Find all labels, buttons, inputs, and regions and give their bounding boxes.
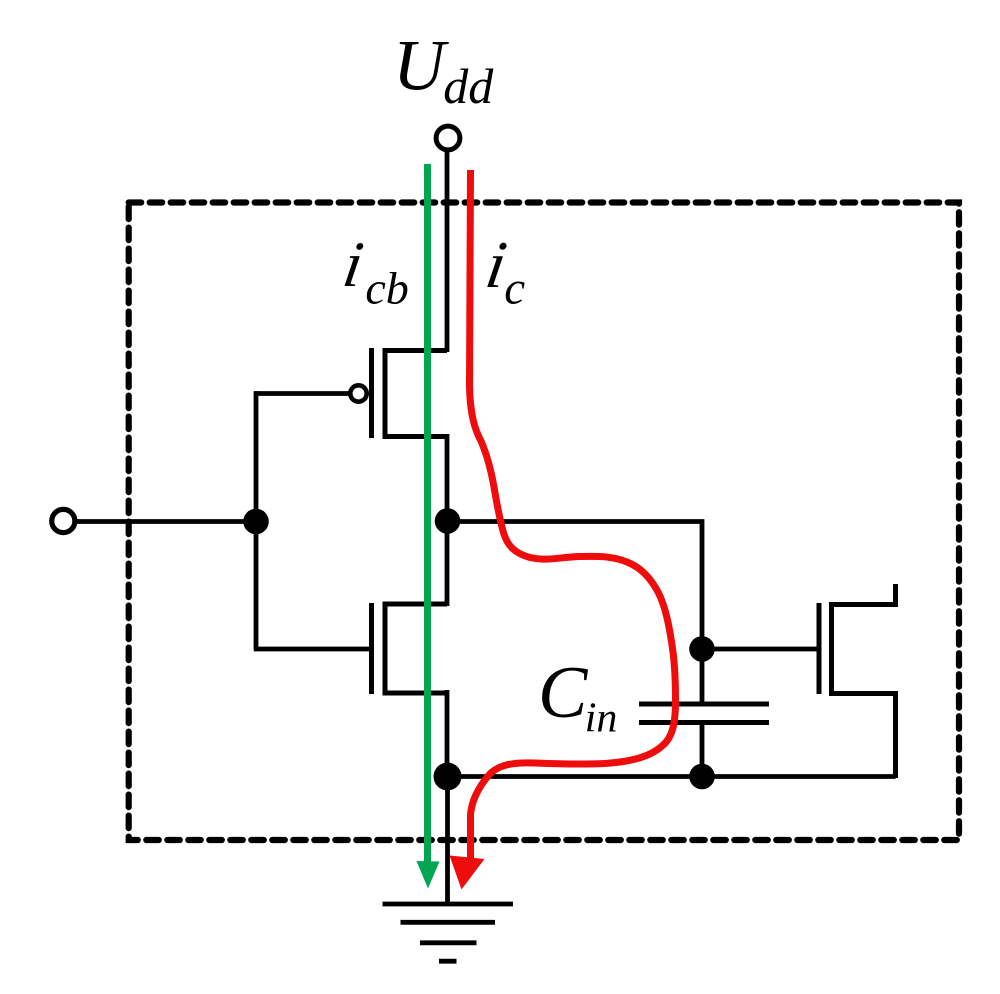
svg-text:in: in — [585, 696, 618, 742]
terminal Udd — [436, 126, 460, 150]
label i_c — [481, 227, 511, 302]
wire cap bottom — [700, 723, 705, 780]
current arrow i_c red — [450, 170, 676, 890]
node load gate — [689, 636, 715, 662]
wire ground rail — [447, 774, 896, 779]
terminal input — [52, 509, 75, 532]
node ground rail — [434, 763, 462, 791]
wire load gate lead — [702, 647, 819, 652]
node output — [435, 508, 461, 534]
wire PMOS drain to output node — [445, 434, 450, 524]
wire NMOS gate lead — [254, 647, 372, 652]
wire PMOS gate lead — [254, 391, 351, 396]
wire Udd supply — [445, 150, 450, 352]
svg-text:U: U — [393, 25, 449, 105]
transistor M2 NMOS — [372, 603, 448, 694]
transistor M3 load — [819, 584, 896, 778]
label i_cb — [339, 229, 368, 301]
svg-text:C: C — [538, 652, 589, 734]
wire output node to NMOS drain — [445, 519, 450, 606]
svg-text:dd: dd — [443, 58, 494, 114]
wire left vertical — [254, 391, 259, 649]
capacitor C_in — [639, 704, 769, 723]
wire input — [75, 519, 258, 524]
node cap bottom — [689, 764, 715, 790]
dashed gate boundary — [129, 203, 959, 841]
svg-text:cb: cb — [365, 262, 408, 313]
wire output to load — [447, 522, 702, 707]
current arrow i_cb green — [417, 164, 440, 889]
wire NMOS source to ground node — [445, 690, 450, 779]
svg-text:c: c — [504, 262, 525, 314]
transistor M1 PMOS — [350, 348, 447, 438]
node input — [243, 509, 269, 535]
ground — [383, 774, 514, 961]
